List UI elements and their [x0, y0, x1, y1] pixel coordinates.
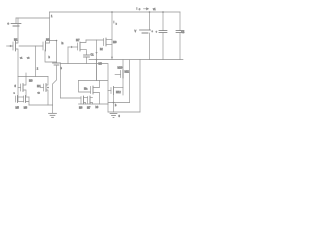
svg-text:M6: M6 — [79, 107, 83, 110]
battery B1 — [7, 18, 21, 26]
svg-text:b: b — [115, 104, 117, 107]
svg-text:v1: v1 — [20, 57, 23, 59]
svg-text:I: I — [137, 7, 138, 10]
arrowhead bottom — [111, 57, 113, 59]
right ground rail — [89, 59, 183, 61]
gate wire M1-M2 — [9, 45, 43, 47]
mid lower: wire top drop — [96, 60, 98, 81]
bottom wire left block — [29, 104, 53, 106]
svg-text:M9: M9 — [113, 41, 117, 44]
svg-text:M12: M12 — [116, 91, 121, 94]
svg-text:g: g — [15, 85, 17, 88]
svg-text:I: I — [114, 21, 115, 24]
bottom ground wire — [108, 111, 140, 113]
node dot A — [56, 40, 58, 42]
capacitor C3 — [156, 12, 167, 60]
rail drop I1 — [111, 11, 113, 13]
left bus mid block — [60, 64, 62, 99]
svg-text:b: b — [61, 67, 63, 70]
wire y102.5 — [108, 102, 130, 104]
transistor M9 — [100, 38, 117, 51]
transistor M3 — [14, 77, 34, 97]
svg-text:+: + — [152, 30, 154, 33]
feedback wire with arrow — [96, 40, 98, 81]
transistor M4 — [37, 77, 48, 106]
node dot C — [96, 59, 98, 61]
svg-text:v2: v2 — [27, 57, 30, 59]
right ground drop — [139, 60, 141, 113]
stub — [25, 73, 27, 77]
right bus x123 — [122, 60, 124, 96]
capacitor C1 — [53, 63, 61, 105]
battery V — [135, 12, 154, 60]
gate bus wire y40 — [86, 39, 104, 41]
mid bus x108 — [107, 64, 109, 105]
svg-text:1: 1 — [51, 15, 53, 18]
transistor M13 — [108, 87, 123, 113]
top rail — [50, 11, 181, 13]
transistor M1 — [7, 18, 19, 101]
wire gate tee down — [35, 46, 37, 77]
svg-text:v1: v1 — [153, 8, 156, 11]
svg-text:C: C — [139, 9, 141, 11]
ground G1 — [49, 105, 57, 117]
down leg — [107, 104, 109, 112]
svg-text:M2: M2 — [46, 39, 50, 42]
source cap C2 — [84, 51, 95, 64]
transistor MA — [84, 81, 100, 105]
svg-text:0: 0 — [119, 115, 121, 118]
svg-text:C1: C1 — [91, 54, 95, 57]
svg-text:V: V — [135, 30, 137, 33]
transistor M6 — [24, 96, 30, 110]
wire battery to rail — [16, 12, 50, 18]
svg-text:M7: M7 — [76, 39, 80, 42]
svg-text:b: b — [116, 23, 118, 25]
svg-text:M7: M7 — [87, 107, 91, 110]
svg-text:2: 2 — [37, 67, 39, 70]
node dot E — [113, 102, 115, 104]
node dot rail1 — [149, 11, 151, 13]
capacitor CL — [176, 12, 185, 60]
svg-text:vb: vb — [38, 93, 41, 95]
svg-text:+: + — [7, 22, 9, 26]
svg-text:a: a — [14, 93, 16, 95]
row2 mid pair — [61, 96, 88, 110]
ground G2 — [110, 114, 121, 119]
node dot rail2 — [162, 11, 164, 13]
svg-text:M6: M6 — [24, 106, 28, 109]
svg-text:M10: M10 — [118, 67, 123, 70]
svg-text:M11: M11 — [125, 71, 130, 74]
svg-text:M8: M8 — [99, 63, 103, 66]
svg-text:+: + — [156, 30, 158, 33]
svg-text:in: in — [62, 42, 65, 45]
transistor M5 — [16, 96, 24, 110]
node dot B — [47, 87, 49, 89]
current source label IC — [137, 7, 157, 11]
bottom wire mid — [79, 103, 109, 105]
wire y80.5 — [79, 80, 108, 82]
svg-text:M4: M4 — [37, 85, 41, 88]
transistor M12 — [115, 70, 130, 78]
svg-text:M3: M3 — [29, 80, 33, 83]
svg-text:b2: b2 — [100, 48, 103, 51]
wire y63.5 — [61, 63, 108, 65]
right outer bus — [129, 60, 131, 103]
svg-text:b3: b3 — [96, 106, 99, 109]
transistor M7 — [68, 39, 87, 51]
gate vert down — [67, 47, 69, 64]
svg-text:M5: M5 — [16, 106, 20, 109]
gate loop MA — [79, 81, 91, 93]
svg-text:M1: M1 — [14, 39, 18, 42]
transistor M2 — [43, 18, 57, 62]
wire drain to cap bus — [50, 41, 57, 64]
svg-text:Ma: Ma — [84, 88, 88, 91]
svg-text:Cb: Cb — [181, 31, 185, 34]
lower-left block top wire — [18, 76, 48, 78]
svg-text:b: b — [49, 56, 51, 59]
